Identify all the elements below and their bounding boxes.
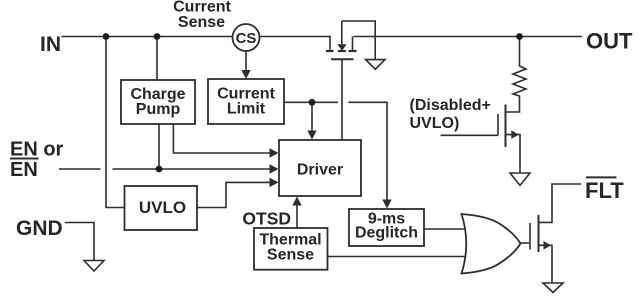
svg-text:Limit: Limit xyxy=(227,101,266,118)
svg-text:IN: IN xyxy=(40,33,61,56)
svg-text:Sense: Sense xyxy=(178,14,225,31)
svg-text:UVLO): UVLO) xyxy=(410,115,460,132)
svg-text:GND: GND xyxy=(16,217,63,240)
svg-text:Sense: Sense xyxy=(267,247,314,264)
svg-text:Deglitch: Deglitch xyxy=(355,225,418,242)
svg-text:CS: CS xyxy=(236,30,257,47)
svg-text:UVLO: UVLO xyxy=(139,198,186,217)
svg-text:Driver: Driver xyxy=(297,162,343,179)
svg-text:(Disabled+: (Disabled+ xyxy=(410,97,491,114)
svg-text:OTSD: OTSD xyxy=(242,208,291,228)
svg-text:EN or: EN or xyxy=(10,139,64,161)
svg-text:OUT: OUT xyxy=(586,29,633,54)
svg-text:FLT: FLT xyxy=(585,178,624,203)
svg-text:Pump: Pump xyxy=(136,101,181,118)
svg-text:EN: EN xyxy=(10,159,38,181)
